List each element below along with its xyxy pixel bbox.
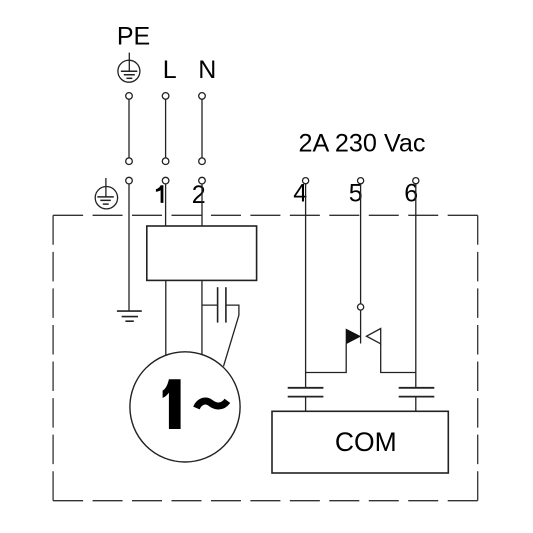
svg-text:L: L	[163, 56, 177, 84]
svg-text:N: N	[198, 56, 216, 84]
capacitor C2	[288, 388, 324, 397]
wire terminal 6	[415, 184, 417, 387]
wire triac left leg	[306, 344, 347, 373]
svg-text:2A 230 Vac: 2A 230 Vac	[299, 130, 426, 158]
wire terminal 5 gate	[360, 310, 362, 343]
node terminal 6	[413, 178, 419, 184]
node terminal 5	[358, 178, 364, 184]
wire terminal 5 upper	[360, 184, 362, 304]
svg-text:2: 2	[192, 181, 206, 209]
label terminal 1	[156, 185, 164, 203]
wire C3 to COM	[415, 397, 417, 411]
motor M1	[130, 352, 240, 462]
wire run capacitor to motor	[224, 305, 239, 366]
protective earth symbol (PE circle)	[118, 53, 140, 83]
wire PE to ground	[128, 184, 130, 311]
node terminal 2	[199, 177, 206, 184]
terminal block	[147, 226, 257, 280]
wire C2 to COM	[305, 397, 307, 411]
node terminal 4	[303, 178, 309, 184]
capacitor C1 (motor run capacitor)	[218, 287, 226, 322]
wire terminal 2 into terminal block	[201, 184, 203, 226]
wire L plug pin	[162, 93, 169, 165]
svg-text:COM: COM	[335, 427, 397, 457]
wire terminal 1 into terminal block	[165, 184, 167, 226]
node terminal 1	[162, 177, 169, 184]
wire terminal block to motor (right)	[201, 280, 203, 354]
wire to run capacitor	[202, 304, 218, 306]
wire terminal 4	[305, 184, 307, 387]
motor tilde	[196, 401, 227, 408]
capacitor C3	[399, 388, 435, 397]
label motor 1	[163, 379, 181, 429]
chassis earth symbol	[95, 178, 117, 209]
ground symbol	[117, 311, 142, 321]
wire terminal block to motor (left)	[165, 280, 167, 355]
node terminal PE	[126, 177, 133, 184]
node on wire 5	[358, 304, 364, 310]
triac open triangle	[367, 329, 381, 344]
svg-text:PE: PE	[117, 22, 150, 50]
wire triac right leg	[381, 344, 416, 373]
triac filled triangle	[346, 329, 360, 343]
COM module box	[272, 411, 448, 473]
enclosure dashed border	[53, 215, 478, 500]
wire N plug pin	[199, 93, 206, 165]
wire PE plug pin	[126, 93, 133, 165]
